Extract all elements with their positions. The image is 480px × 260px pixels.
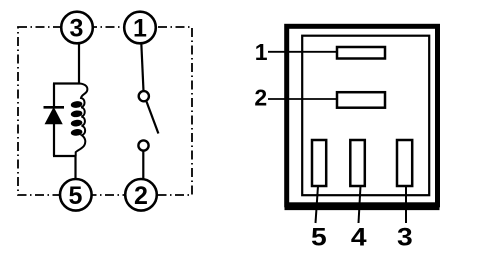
terminal 2 circle — [125, 179, 157, 211]
terminal 5 circle — [60, 179, 92, 211]
switch fixed contact (small circle) — [138, 140, 148, 150]
terminal slot 1 (horizontal) — [337, 47, 385, 59]
terminal 1 circle — [124, 12, 156, 44]
svg-text:3: 3 — [70, 15, 84, 43]
wire from terminal 1 to switch pivot — [141, 43, 143, 91]
terminal slot 5 (vertical) — [312, 140, 326, 186]
diode (parallel with coil), cathode up — [44, 84, 65, 157]
svg-text:2: 2 — [254, 85, 267, 111]
connector body inner rectangle — [302, 36, 429, 196]
svg-text:1: 1 — [255, 39, 268, 65]
connector body outer rectangle — [287, 26, 438, 205]
svg-text:3: 3 — [397, 223, 413, 251]
leader line pin 4 — [359, 186, 361, 223]
svg-text:4: 4 — [351, 223, 367, 251]
wire from switch fixed contact to terminal 2 — [142, 151, 144, 180]
leader line pin 1 — [268, 51, 338, 53]
leader line pin 3 — [405, 186, 407, 223]
wire from terminal 3 down to coil top junction — [78, 43, 80, 84]
connector body outer bottom edge (extra thickness) — [285, 206, 440, 210]
terminal slot 2 (horizontal) — [337, 92, 385, 108]
terminal 3 circle — [61, 12, 93, 44]
leader line pin 2 — [268, 98, 338, 100]
svg-text:2: 2 — [134, 182, 148, 210]
svg-text:5: 5 — [311, 223, 327, 251]
wire: dash-dot enclosure border of relay — [18, 27, 192, 195]
leader line pin 5 — [316, 186, 319, 223]
relay coil K: spine with right bulges — [76, 84, 88, 157]
terminal slot 3 (vertical) — [397, 140, 412, 186]
wire: bottom junction horizontal — [53, 155, 76, 157]
switch blade (open contact arm) — [146, 101, 158, 134]
wire from bottom junction to terminal 5 — [74, 156, 76, 180]
wire: top junction horizontal — [53, 82, 80, 84]
switch pivot contact (small circle) — [139, 91, 149, 101]
svg-text:1: 1 — [133, 15, 147, 43]
svg-text:5: 5 — [69, 182, 83, 210]
terminal slot 4 (vertical) — [350, 140, 365, 186]
relay coil K: loop blobs — [71, 101, 82, 136]
